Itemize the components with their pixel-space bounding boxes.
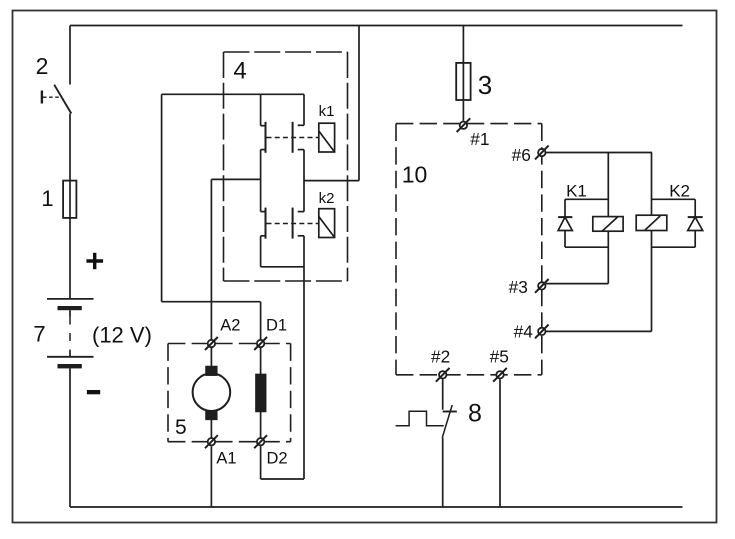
contact k2 actuator dashed link <box>267 223 319 225</box>
svg-text:K1: K1 <box>566 181 587 200</box>
minus polarity mark <box>87 390 100 394</box>
relay coil K2 <box>636 215 667 230</box>
node junction A2 branch <box>211 178 260 180</box>
svg-text:3: 3 <box>478 70 492 100</box>
terminal D1 <box>254 337 267 350</box>
svg-text:#2: #2 <box>431 347 450 367</box>
pushbutton 8 blade <box>442 405 452 438</box>
coil symbol k2 <box>319 209 335 238</box>
terminal #3 <box>535 279 549 293</box>
svg-text:A1: A1 <box>216 450 236 468</box>
wire #5 to bottom bus <box>499 379 501 507</box>
pushbutton 8 fixed contact tick <box>443 411 457 413</box>
wire battery minus to bottom bus <box>69 368 71 507</box>
terminal D2 <box>254 435 267 448</box>
svg-text:D2: D2 <box>266 450 287 468</box>
svg-text:1: 1 <box>41 186 53 211</box>
wire bottom return bus <box>70 506 683 508</box>
svg-text:7: 7 <box>33 322 45 347</box>
terminal #1 <box>457 118 471 132</box>
box 10 dashed enclosure <box>396 124 542 375</box>
svg-text:#5: #5 <box>490 347 509 367</box>
wire left drop to D1 feed <box>161 94 163 301</box>
wire fuse 3 to terminal #1 <box>462 100 464 121</box>
diode VD2 across K2 <box>652 199 703 247</box>
svg-text:#4: #4 <box>514 321 534 341</box>
pulse waveform symbol <box>396 411 444 426</box>
wire k1 right bottom to k2 right top <box>303 181 305 212</box>
wire k1 left bottom to k2 left top <box>260 179 262 211</box>
wire D2 loop <box>261 478 304 480</box>
suppressor bar D1-D2 <box>260 347 262 374</box>
wire horizontal to D1 <box>162 301 261 303</box>
switch S2 blade <box>54 85 71 114</box>
svg-text:#1: #1 <box>470 129 489 149</box>
fuse F3 <box>456 63 470 100</box>
svg-text:#3: #3 <box>509 277 528 297</box>
battery 7 internal dashed link <box>69 310 71 316</box>
wire K2 coil to #4 <box>651 231 653 332</box>
terminal A1 <box>205 435 218 448</box>
svg-text:k2: k2 <box>319 190 335 207</box>
diode VD1 across K1 <box>558 199 608 247</box>
svg-text:D1: D1 <box>266 317 287 335</box>
svg-text:5: 5 <box>175 416 187 439</box>
contact k2 right pole <box>298 211 304 213</box>
svg-text:k1: k1 <box>319 103 335 120</box>
battery 7 cell1 thick plate <box>58 306 82 310</box>
svg-text:K2: K2 <box>669 182 690 201</box>
box 5 dashed enclosure <box>168 344 291 442</box>
node junction supply to contacts <box>304 180 359 182</box>
wire k2 left bottom jog <box>261 266 304 268</box>
battery 7 cell2 thick plate <box>58 364 82 368</box>
terminal #2 <box>436 368 450 382</box>
contact k1 right pole <box>303 94 305 125</box>
svg-text:A2: A2 <box>220 317 240 335</box>
box 4 dashed enclosure <box>224 52 348 281</box>
wire drop to K2 coil <box>651 153 653 216</box>
terminal #5 <box>493 368 507 382</box>
battery 7 cell2 long plate <box>47 356 94 358</box>
terminal #6 <box>535 146 549 160</box>
svg-text:10: 10 <box>402 162 428 188</box>
wire K1 coil to #3 <box>607 231 609 283</box>
wire up to top rail <box>358 26 360 181</box>
svg-text:(12 V): (12 V) <box>92 323 152 348</box>
battery 7 cell1 long plate <box>47 298 94 300</box>
wire from top rail to switch 2 <box>69 26 71 85</box>
wire drop to K1 coil <box>607 153 609 217</box>
motor M5 <box>210 347 212 366</box>
svg-text:2: 2 <box>36 53 49 79</box>
wire k2 right bottom down to D2 loop <box>303 236 305 479</box>
svg-text:4: 4 <box>233 58 246 85</box>
svg-text:#6: #6 <box>512 145 531 165</box>
wire pushbutton 8 to bottom bus <box>442 438 444 508</box>
wire switch 2 to fuse 1 <box>69 114 71 181</box>
wire top rail to fuse 3 <box>462 26 464 63</box>
switch S2 actuator dashed link <box>43 96 60 98</box>
svg-text:8: 8 <box>468 400 482 428</box>
relay coil K1 <box>593 217 623 232</box>
wire to terminal A2 <box>210 179 212 339</box>
node inner rail (D1 / k1 common) <box>162 93 304 95</box>
contact k2 left pole <box>261 211 266 213</box>
wire A1 to bottom bus <box>210 446 212 507</box>
wire #6 to relay coils <box>546 152 652 154</box>
terminal #4 <box>535 325 549 339</box>
contact k1 left pole <box>260 94 262 125</box>
wire top supply rail <box>70 25 683 27</box>
switch S2 actuator tick <box>41 91 43 104</box>
contact k1 actuator dashed link <box>267 137 319 139</box>
fuse F1 <box>63 181 76 218</box>
wire down to terminal D1 <box>260 302 262 339</box>
plus polarity mark <box>86 253 103 269</box>
terminal A2 <box>205 337 218 350</box>
wire fuse 1 to battery <box>69 218 71 299</box>
coil symbol k1 <box>319 123 335 152</box>
wire #2 to pushbutton 8 <box>442 379 444 409</box>
